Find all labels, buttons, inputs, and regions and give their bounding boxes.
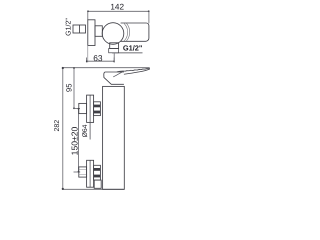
svg-text:95: 95 [65,84,74,92]
lower union: nut stack [94,165,101,180]
dimension 63 [86,58,115,63]
svg-text:Ø64: Ø64 [82,124,89,137]
dimension 95 line [73,67,75,109]
upper union: nut stack [94,102,101,116]
upper union: wall nipple [79,103,87,113]
body tube (top view) [120,23,148,41]
svg-text:G1/2": G1/2" [123,43,143,52]
top extension line of front view [63,67,150,69]
shading arcs on tube [124,23,129,41]
dimension 282 line [62,67,64,190]
handle hub (front view) [104,72,124,84]
tick at upper union centre [73,108,80,110]
lower union: escutcheon [87,160,94,187]
mixer body (front view) [103,86,125,189]
extension line right of 142 [148,11,150,23]
extension line from outlet for 63 [113,54,115,63]
hose outlet stub (front view bottom) [94,180,101,188]
handle dome circle (top view) [102,23,124,45]
label G1/2" outlet with leader underline [112,43,143,53]
dimension 142 line [87,10,150,12]
extension line left of 142 [87,11,89,19]
svg-text:63: 63 [93,53,103,63]
svg-text:G1/2": G1/2" [64,18,72,36]
inlet nipple (top view) [73,25,86,33]
handle lever (front view) [117,68,150,74]
svg-text:150±20: 150±20 [69,126,79,155]
extension line from wall plane for 63 [87,46,89,63]
wall flange plate (top view) [88,20,95,46]
connector hub (top view) [95,26,102,37]
dimension 150±20 line [78,108,80,173]
svg-text:142: 142 [110,3,124,12]
lower union: wall nipple [79,167,87,177]
svg-text:282: 282 [54,120,61,132]
Ø64 leader line [89,122,91,139]
upper union: escutcheon [87,95,94,122]
handle inner contour [113,72,122,77]
shower outlet stub (top view) [109,43,119,53]
bottom extension line of front view [63,188,125,190]
tick at lower union centre [74,171,81,173]
